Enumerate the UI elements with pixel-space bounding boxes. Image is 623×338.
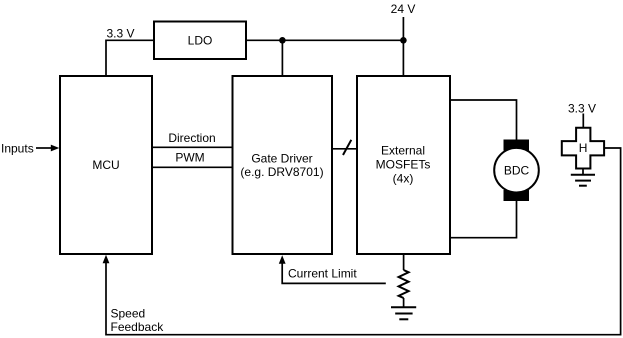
- svg-text:MCU: MCU: [92, 158, 119, 172]
- block LDO: [154, 22, 246, 60]
- block MCU: [60, 76, 152, 254]
- wire Inputs arrow into MCU: [36, 145, 59, 152]
- wire 24V to gate driver top: [281, 40, 283, 75]
- wire resistor to ground: [403, 298, 405, 307]
- wire speed feedback from hall to MCU: [103, 148, 621, 335]
- motor BDC: [494, 140, 539, 202]
- svg-text:H: H: [579, 141, 588, 155]
- svg-text:LDO: LDO: [188, 34, 213, 48]
- junction dot 24V node: [400, 37, 407, 44]
- wire gate bus driver to MOSFETs: [333, 148, 358, 150]
- svg-text:Speed: Speed: [111, 307, 146, 321]
- svg-text:BDC: BDC: [504, 164, 530, 178]
- ground sense resistor: [391, 307, 416, 319]
- svg-text:24 V: 24 V: [391, 2, 416, 16]
- wire 24V rail from LDO output to MOSFET supply: [247, 39, 404, 41]
- wire 3.3V from MCU top to LDO input: [106, 40, 154, 75]
- svg-text:MOSFETs: MOSFETs: [376, 158, 431, 172]
- svg-text:(e.g. DRV8701): (e.g. DRV8701): [240, 165, 323, 179]
- svg-text:3.3 V: 3.3 V: [568, 101, 596, 115]
- wire motor terminal bottom: [451, 200, 517, 238]
- svg-text:3.3 V: 3.3 V: [106, 27, 134, 41]
- block External MOSFETs (4x): [357, 76, 450, 254]
- label Speed Feedback: [111, 307, 165, 335]
- hall sensor H: [562, 128, 604, 169]
- svg-text:Gate Driver: Gate Driver: [251, 151, 312, 165]
- ground hall sensor: [571, 175, 595, 186]
- junction dot gate driver supply: [279, 37, 286, 44]
- svg-text:Inputs: Inputs: [1, 141, 34, 155]
- wire sense MOSFETs to resistor: [403, 255, 405, 270]
- wire 24V supply drop to MOSFETs: [402, 17, 404, 75]
- svg-text:(4x): (4x): [393, 171, 414, 185]
- block U1 Gate Driver (e.g. DRV8701): [233, 76, 333, 254]
- svg-text:PWM: PWM: [175, 150, 204, 164]
- svg-text:Direction: Direction: [168, 131, 215, 145]
- svg-text:Feedback: Feedback: [111, 320, 165, 334]
- svg-text:External: External: [381, 143, 425, 157]
- wire current limit into gate driver: [279, 255, 386, 283]
- svg-text:Current Limit: Current Limit: [288, 266, 357, 280]
- bus slash: [343, 140, 351, 155]
- wire hall 3.3V supply: [582, 114, 584, 128]
- wire hall to ground: [582, 169, 584, 175]
- wire PWM MCU to gate driver: [153, 166, 233, 168]
- wire Direction MCU to gate driver: [153, 146, 233, 148]
- resistor sense: [399, 270, 409, 298]
- wire motor terminal top: [451, 100, 517, 141]
